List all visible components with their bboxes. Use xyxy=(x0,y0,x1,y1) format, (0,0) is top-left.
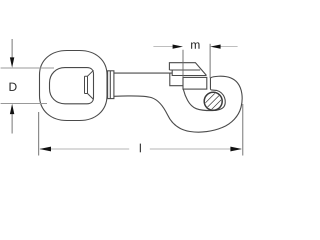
dimension l: right arrow xyxy=(230,147,242,152)
dimension D: down arrow xyxy=(11,39,13,58)
dimension D: upper extension line xyxy=(1,67,54,69)
dimension m: label xyxy=(191,42,199,48)
dimension m: left tail and arrow xyxy=(153,46,172,48)
dimension D: lower extension line xyxy=(1,103,47,105)
swivel eye outer outline xyxy=(40,51,108,121)
dimension l: line right part xyxy=(150,148,241,150)
dimension D: label xyxy=(9,83,16,91)
frame under slider xyxy=(170,73,184,86)
dimension m: right extension line xyxy=(209,44,211,78)
dimension m: left extension line xyxy=(182,50,184,78)
slider cap xyxy=(169,63,206,76)
collar / washer between eye and shank xyxy=(108,71,114,99)
dimension l: line left part xyxy=(40,148,129,150)
bolt head tab inside eye xyxy=(85,70,94,99)
pin cross-section circle xyxy=(204,92,222,110)
dimension D: up arrow xyxy=(11,114,13,134)
shank top line xyxy=(114,72,172,74)
pin hatching xyxy=(197,85,233,121)
dimension l: left extension line xyxy=(38,112,40,156)
hook outer boundary (shank bottom, belly, bowl, right side, nose) xyxy=(114,76,242,132)
inner bowl pocket around pin xyxy=(183,89,225,110)
dimension l: right extension line xyxy=(242,104,244,156)
dimension m: right tail and arrow xyxy=(220,46,237,48)
slider barrel xyxy=(183,77,207,89)
swivel eye inner hole xyxy=(50,68,94,104)
dimension l: label xyxy=(140,144,141,153)
dimension l: left arrow xyxy=(39,147,51,152)
slider middle step xyxy=(172,70,206,76)
